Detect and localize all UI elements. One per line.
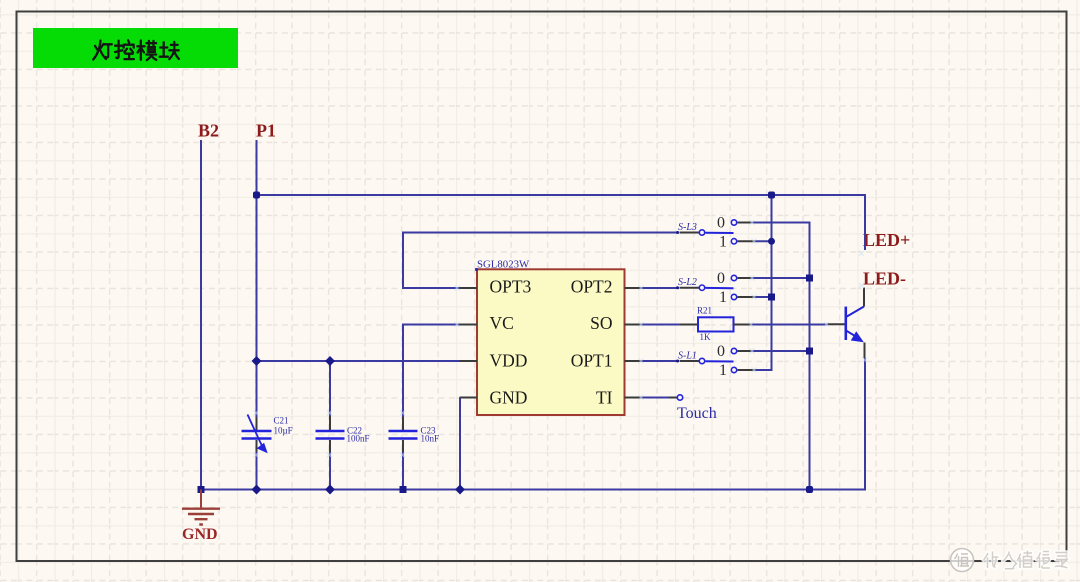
transistor Q1 collector diagonal [846, 307, 864, 318]
transistor Q1 base bar [844, 307, 847, 340]
switch S-L3 origin dot [676, 231, 679, 234]
wire S-L3 pos0 to gnd column [751, 223, 810, 490]
title text 灯控模块 (drawn strokes) [93, 40, 179, 60]
svg-text:S-L2: S-L2 [678, 277, 697, 288]
switch S-L3 pivot terminal [699, 230, 704, 235]
switch S-L3 common pin stub [680, 232, 700, 234]
svg-text:0: 0 [717, 214, 725, 231]
svg-text:SO: SO [590, 313, 612, 333]
title glyph 模 [137, 41, 156, 61]
svg-text:OPT1: OPT1 [571, 351, 613, 371]
switch S-L1 pivot terminal [699, 358, 704, 363]
pin stub OPT2 [625, 287, 642, 289]
capacitor C22 black stubs [329, 416, 331, 452]
compile marks [750, 220, 755, 225]
switch S-L2 common pin stub [680, 287, 700, 289]
transistor Q1 emitter diagonal [846, 331, 857, 338]
capacitor C21 plates [242, 431, 272, 439]
pin stub TI [625, 397, 642, 399]
wire ground bus [201, 358, 865, 490]
svg-text:GND: GND [490, 387, 528, 407]
svg-text:R21: R21 [697, 306, 712, 316]
title glyph 控 [115, 40, 134, 59]
wire top rail P1 to LED+ drop [257, 195, 866, 250]
IC U1 SGL8023W body [477, 269, 625, 415]
svg-text:S-L1: S-L1 [678, 350, 697, 361]
junction S-L3 pos1 [768, 238, 775, 245]
watermark text strokes [984, 551, 1068, 569]
wire C22 branch [329, 361, 331, 490]
wire P1 vertical through C21 [256, 140, 258, 490]
svg-text:LED+: LED+ [863, 230, 910, 250]
svg-text:10nF: 10nF [421, 433, 440, 443]
ground symbol bars [182, 509, 220, 525]
pin stub OPT1 [625, 360, 642, 362]
title block green box [33, 28, 238, 68]
svg-text:0: 0 [717, 343, 725, 360]
switch S-L2 contact 0 [731, 275, 736, 280]
svg-text:1: 1 [719, 289, 727, 306]
wire TI to Touch [641, 397, 670, 399]
pin stub GND [460, 397, 478, 399]
switch S-L2 arm [706, 287, 734, 289]
svg-text:Touch: Touch [677, 405, 717, 422]
svg-text:VC: VC [490, 313, 514, 333]
junction bus gnd column [806, 486, 813, 493]
svg-text:C21: C21 [274, 415, 289, 425]
junction bus C21 [252, 485, 262, 495]
switch S-L2 contact 0 stub [738, 277, 753, 279]
junction S-L2 pos1 [768, 294, 775, 301]
switch S-L3 contact 1 stub [738, 240, 756, 242]
switch S-L1 [676, 343, 755, 379]
wire VDD rail [257, 360, 461, 362]
junction S-L1 pos0 [806, 348, 813, 355]
switch S-L1 origin dot [676, 360, 679, 363]
transistor Q1 emitter arrow [851, 331, 864, 342]
svg-text:VDD: VDD [490, 351, 528, 371]
svg-text:OPT3: OPT3 [490, 276, 532, 296]
pin stub VC [460, 324, 478, 326]
Touch pin stub [669, 397, 677, 399]
svg-text:LED-: LED- [863, 269, 906, 289]
capacitor C23 plates [389, 431, 418, 439]
transistor Q1 emitter stub [864, 343, 866, 359]
watermark text shadow [984, 551, 1068, 569]
capacitor C22 plates [316, 431, 345, 439]
svg-text:10µF: 10µF [274, 426, 293, 436]
wire R21 to base [751, 324, 827, 326]
svg-text:TI: TI [596, 387, 613, 407]
svg-text:100nF: 100nF [347, 434, 370, 444]
wire B2 vertical [200, 140, 202, 490]
wire S-L2 pos0 [751, 277, 810, 279]
transistor Q1 collector stub [863, 288, 865, 307]
watermark logo circle [951, 549, 974, 572]
wire S-L3 pos1 [754, 240, 772, 242]
wire GND pin down [459, 398, 461, 490]
pin stub VDD [460, 360, 478, 362]
svg-text:1K: 1K [700, 332, 712, 342]
Touch open terminal [677, 395, 682, 400]
svg-text:S-L3: S-L3 [678, 222, 697, 233]
wire OPT3 loop to S-L3 [403, 233, 679, 289]
switch S-L1 contact 1 stub [738, 369, 756, 371]
svg-text:1: 1 [719, 233, 727, 250]
wire OPT2 to S-L2 [641, 287, 679, 289]
capacitor C21 variable arrow [248, 415, 263, 447]
junction bus B2 [198, 486, 205, 493]
pin stub OPT3 [460, 287, 478, 289]
title glyph 灯 [93, 41, 112, 60]
capacitor C23 black stubs [402, 417, 404, 452]
switch S-L3 [676, 214, 755, 250]
switch S-L2 origin dot [676, 286, 679, 289]
switch S-L1 contact 0 [731, 348, 736, 353]
wire S-L2 pos1 [754, 296, 772, 298]
switch S-L1 arm [706, 360, 734, 362]
IC origin dot [475, 268, 478, 271]
switch S-L3 arm [706, 232, 734, 234]
junction VDD C22 [325, 356, 335, 366]
wire SO to R21 [641, 324, 681, 326]
switch S-L1 contact 1 [731, 367, 736, 372]
wire VC to C23 branch [403, 325, 460, 490]
switch S-L2 contact 1 stub [738, 296, 756, 298]
svg-text:B2: B2 [198, 121, 219, 141]
junction S-L2 pos0 [806, 275, 813, 282]
switch S-L3 contact 0 [731, 220, 736, 225]
resistor R21 left stub [680, 324, 698, 326]
switch S-L1 contact 0 stub [738, 350, 753, 352]
junction VDD P1 [252, 356, 262, 366]
switch S-L2 contact 1 [731, 294, 736, 299]
svg-text:GND: GND [182, 526, 218, 543]
wire OPT1 to S-L1 [641, 360, 679, 362]
switch S-L3 contact 1 [731, 239, 736, 244]
svg-text:SGL8023W: SGL8023W [477, 259, 530, 271]
wire S-L1 pos0 [751, 350, 810, 352]
capacitor C21 black stubs [256, 418, 258, 453]
title glyph 块 [160, 42, 179, 59]
svg-text:P1: P1 [256, 121, 276, 141]
junction bus C22 [325, 485, 335, 495]
transistor Q1 base stub [827, 323, 845, 325]
pin stub SO [625, 324, 642, 326]
svg-text:0: 0 [717, 270, 725, 287]
junction bus C23 [400, 486, 407, 493]
switch S-L2 [676, 270, 755, 306]
switch S-L1 common pin stub [680, 360, 700, 362]
svg-text:OPT2: OPT2 [571, 276, 613, 296]
svg-text:1: 1 [719, 362, 727, 379]
resistor R21 body [698, 317, 734, 331]
switch S-L3 contact 0 stub [738, 222, 753, 224]
junction bus GND pin [455, 485, 465, 495]
junction vdd column top rail [768, 192, 775, 199]
junction P1 top rail [253, 192, 260, 199]
resistor R21 right stub [734, 324, 752, 326]
ground symbol stem [200, 490, 202, 509]
wire vdd column to S-L1 pos1 [754, 195, 772, 370]
watermark logo glyph [955, 554, 970, 568]
switch S-L2 pivot terminal [699, 285, 704, 290]
